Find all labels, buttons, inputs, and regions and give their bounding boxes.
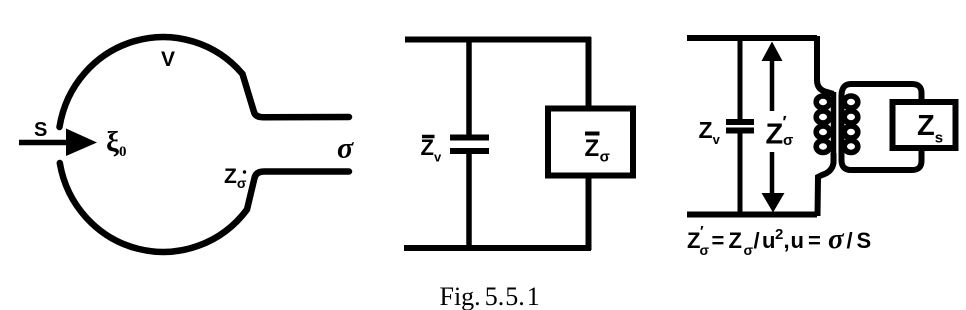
- transformer secondary top wire: [842, 84, 922, 104]
- middle circuit: capacitor Zv bottom plate: [450, 148, 489, 154]
- load box Zs: [893, 102, 956, 148]
- secondary coil loop 1: [844, 96, 858, 108]
- secondary coil loop 4: [844, 141, 858, 153]
- dot above sigma subscript of Z_sigma: [243, 170, 246, 173]
- white backing of label Z'sigma: [761, 111, 797, 152]
- double arrow bottom head: [762, 193, 785, 213]
- svg-text:Fig.5.5.1: Fig.5.5.1: [440, 282, 540, 310]
- cavity lower wall (arc + bottom duct wall): [60, 163, 349, 252]
- svg-text:u: u: [762, 228, 775, 253]
- svg-text:/: /: [847, 228, 853, 253]
- arrow S (piston displacement) shaft: [19, 140, 70, 146]
- svg-text:=: =: [712, 228, 725, 253]
- secondary coil loop 2: [844, 111, 858, 123]
- double arrow Z'sigma shaft: [770, 55, 775, 200]
- svg-text:Zv: Zv: [421, 135, 442, 165]
- middle circuit: bottom rail: [404, 245, 591, 251]
- svg-text:σ: σ: [828, 223, 845, 255]
- svg-text:Z: Z: [729, 228, 742, 253]
- right circuit: capacitor Zv branch lower wire: [738, 131, 743, 216]
- right circuit: top rail: [687, 35, 817, 41]
- svg-text:V: V: [161, 48, 175, 71]
- middle circuit: right branch wire (top rail to box): [586, 37, 592, 107]
- cavity upper wall (arc + top duct wall): [60, 37, 350, 127]
- middle circuit: top rail: [405, 37, 591, 43]
- double arrow top head: [762, 42, 783, 62]
- svg-text:Z: Z: [687, 228, 700, 253]
- arrow S head: [66, 129, 97, 157]
- svg-text:′: ′: [700, 223, 704, 240]
- equation Z'sigma = Zsigma/u^2, u = sigma/S: [687, 223, 871, 258]
- primary coil loop 3: [816, 126, 830, 138]
- svg-text:Zσ: Zσ: [224, 165, 247, 191]
- middle circuit: right branch wire (box to bottom rail): [586, 177, 592, 250]
- primary coil loop 2: [816, 111, 830, 123]
- right circuit: bottom rail: [687, 212, 817, 218]
- transformer secondary loop wire (stem + top + right + bottom): [842, 94, 922, 170]
- primary coil loop 4: [816, 141, 830, 153]
- impedance box Z-bar-sigma: [548, 109, 633, 176]
- transformer primary lower wire: [818, 153, 834, 216]
- middle circuit: capacitor Zv branch upper wire: [466, 37, 472, 137]
- middle circuit: capacitor Zv top plate: [450, 135, 489, 141]
- svg-text:=: =: [808, 228, 821, 253]
- svg-text:S: S: [34, 119, 47, 141]
- primary coil loop 1: [816, 96, 830, 108]
- svg-text:σ: σ: [744, 242, 754, 258]
- svg-text:σ: σ: [337, 132, 354, 165]
- svg-text:/: /: [754, 228, 760, 253]
- svg-text:σ: σ: [783, 132, 793, 149]
- svg-text:σ: σ: [700, 242, 710, 258]
- overbar of Z-bar-v: [422, 135, 435, 139]
- middle circuit: capacitor Zv branch lower wire: [466, 151, 472, 250]
- svg-text:Zv: Zv: [699, 117, 721, 147]
- overbar of Z-bar-sigma: [585, 132, 600, 136]
- right circuit: capacitor Zv bottom plate: [726, 128, 754, 134]
- svg-text:ξ0: ξ0: [106, 126, 126, 160]
- svg-text:2: 2: [775, 226, 783, 243]
- right circuit: capacitor Zv top plate: [726, 119, 754, 125]
- transformer primary stem: [831, 92, 837, 155]
- right circuit: capacitor Zv branch upper wire: [738, 36, 743, 121]
- transformer primary branch upper wire: [817, 36, 834, 94]
- svg-text:′: ′: [783, 113, 787, 132]
- svg-text:Z: Z: [766, 119, 784, 151]
- svg-text:u: u: [791, 228, 804, 253]
- secondary coil loop 3: [844, 126, 858, 138]
- svg-text:S: S: [857, 228, 872, 253]
- svg-text:,: ,: [784, 228, 790, 253]
